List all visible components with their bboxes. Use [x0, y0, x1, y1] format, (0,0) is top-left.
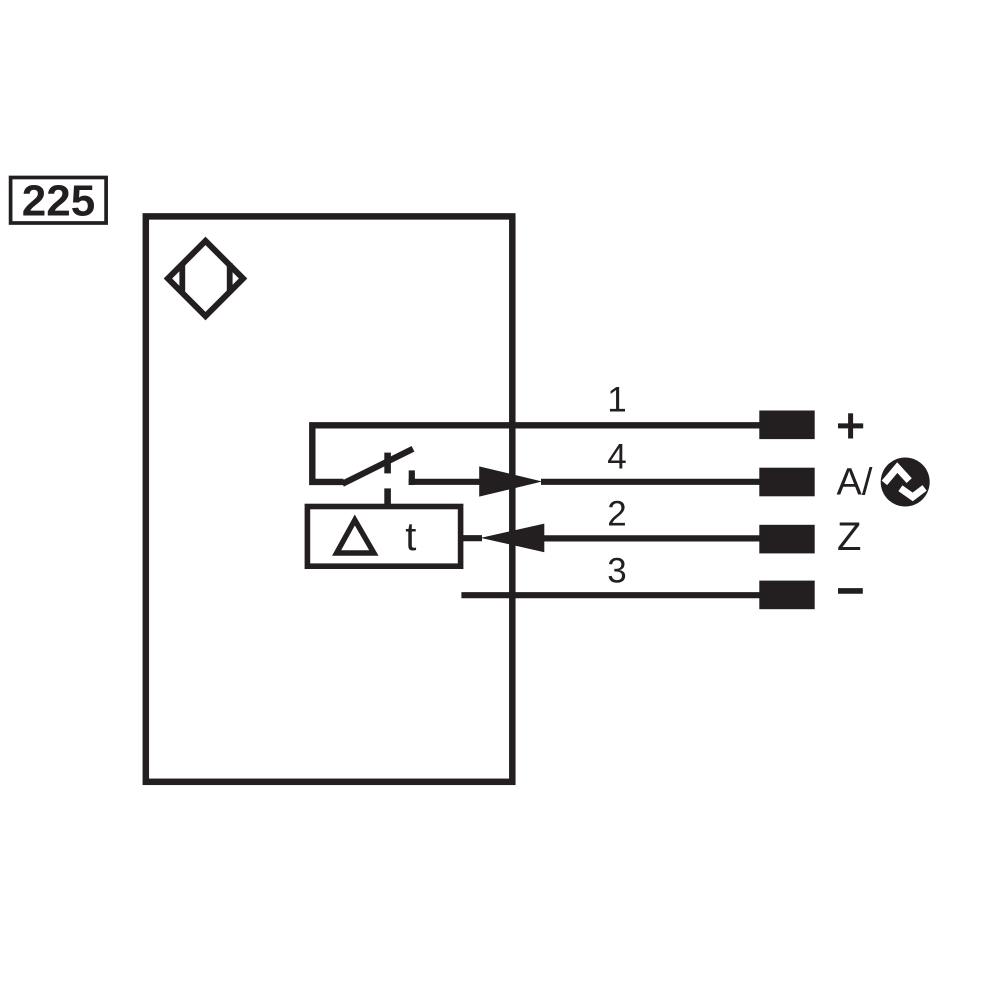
inductive sensor symbol: diamond — [168, 241, 243, 316]
input arrowhead on wire 2 (pointing left) — [481, 524, 545, 553]
switch S1 blade — [343, 449, 414, 484]
wire 1 (terminal 1 to switch pivot) — [312, 425, 760, 482]
svg-text:Z: Z — [837, 515, 861, 559]
terminal 3 (black pad) — [759, 581, 814, 610]
svg-text:4: 4 — [607, 438, 626, 477]
terminal 1 (black pad) — [759, 411, 814, 440]
svg-text:3: 3 — [607, 552, 626, 591]
wire 4 (arrow tip to terminal 4) — [541, 479, 761, 485]
wire 2 (arrow base to terminal 2) — [543, 535, 761, 541]
sensor body outline — [146, 216, 513, 781]
wire 3 (inside body to terminal 3) — [461, 592, 760, 598]
sensor symbol left bar — [179, 263, 185, 291]
terminal 4 (black pad) — [759, 468, 814, 497]
output arrowhead on wire 4 (pointing right) — [479, 466, 542, 496]
terminal 2 (black pad) — [759, 525, 814, 554]
svg-text:2: 2 — [607, 495, 626, 534]
figure number box 225 — [11, 177, 107, 226]
switch fixed contact tick — [409, 470, 415, 485]
signal label + (supply) — [838, 413, 863, 438]
switch actuator link dash 1 (crosses blade) — [384, 453, 391, 474]
timer warning triangle — [337, 520, 374, 553]
timer box — [307, 507, 460, 567]
logo badge (circle with zigzag arrows) — [881, 458, 930, 507]
wire stub from contact to arrow 4 — [409, 479, 480, 485]
svg-text:t: t — [405, 515, 416, 559]
svg-text:1: 1 — [607, 381, 626, 420]
svg-text:A/: A/ — [837, 462, 873, 504]
switch actuator link dash 2 — [384, 488, 391, 504]
signal label - (0 V) — [838, 588, 863, 594]
wire stub from timer box to arrow 2 tip — [460, 535, 482, 541]
svg-text:225: 225 — [22, 177, 95, 226]
sensor symbol right bar — [227, 263, 233, 291]
